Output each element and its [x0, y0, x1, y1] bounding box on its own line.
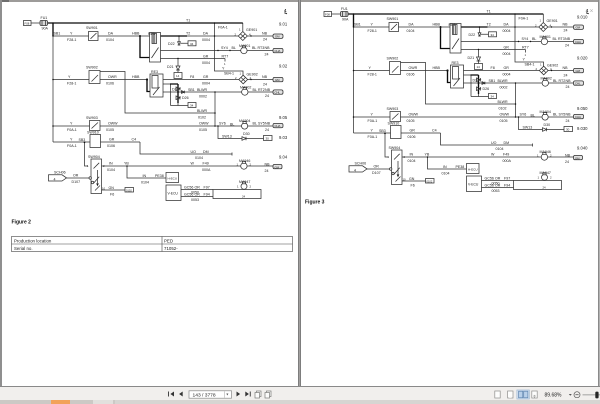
svg-text:4: 4 [586, 8, 589, 13]
svg-text:89.68%: 89.68% [545, 392, 563, 398]
svg-text:9.040: 9.040 [577, 146, 588, 151]
svg-text:9.050: 9.050 [577, 106, 588, 111]
svg-text:9.02: 9.02 [279, 64, 288, 69]
svg-text:4: 4 [284, 8, 287, 13]
svg-text:Production location: Production location [14, 239, 52, 244]
svg-text:9.03: 9.03 [279, 135, 288, 140]
svg-text:9.030: 9.030 [577, 126, 588, 131]
svg-text:9.020: 9.020 [577, 56, 588, 61]
svg-text:Figure 2: Figure 2 [12, 220, 32, 226]
svg-text:71052-: 71052- [164, 246, 178, 251]
svg-text:Serial no.: Serial no. [14, 246, 33, 251]
svg-text:9.010: 9.010 [577, 15, 588, 20]
svg-text:PED: PED [164, 239, 173, 244]
svg-text:9.01: 9.01 [279, 22, 288, 27]
svg-text:143 / 3778: 143 / 3778 [193, 392, 216, 398]
svg-text:9.05: 9.05 [279, 115, 288, 120]
svg-text:Figure 3: Figure 3 [305, 200, 325, 206]
svg-text:9.04: 9.04 [279, 154, 288, 159]
